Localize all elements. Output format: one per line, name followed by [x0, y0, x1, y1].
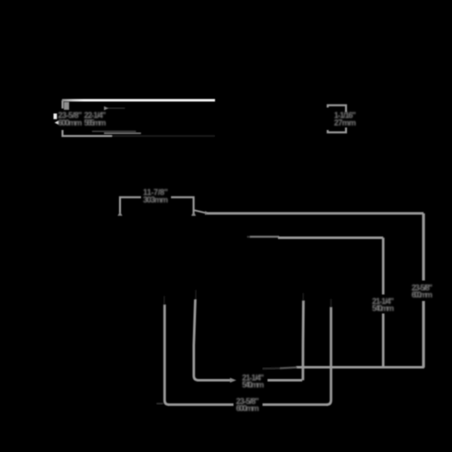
wire: extension line E3 — [302, 301, 305, 381]
wire: dark fade-in at left end of B1 — [263, 367, 282, 369]
wire: right small dimension bracket top — [328, 105, 346, 112]
node: right leg arrow flare — [191, 212, 196, 216]
node: arrow on B3 — [230, 378, 236, 383]
node: small arrow at top line start — [205, 211, 210, 215]
wire: diagonal from bracket to top line — [194, 210, 207, 213]
wire: top-left gray corner line — [62, 100, 64, 108]
wire: bottom dimension line B2 — [168, 403, 234, 406]
wire: bottom dimension line B3 right part — [268, 379, 303, 382]
wire: E1 dark stub above — [163, 296, 165, 305]
wire: lower leader line faint — [92, 130, 136, 132]
svg-text:540mm: 540mm — [242, 381, 264, 390]
svg-text:600mm: 600mm — [236, 404, 259, 413]
wire: right vertical R1 upper segment — [422, 213, 425, 280]
wire: dark stub left of B2 corner — [157, 403, 164, 405]
svg-text:600mm: 600mm — [58, 119, 82, 128]
wire: right vertical R1 lower segment — [422, 301, 425, 368]
wire: E3 dark stub above — [302, 293, 304, 301]
wire: second top horizontal line T2 — [247, 236, 251, 238]
svg-text:27mm: 27mm — [334, 119, 356, 128]
node: left leg arrow flare — [118, 212, 123, 216]
wire: lower-left gray bracket line — [63, 130, 113, 136]
svg-text:303mm: 303mm — [143, 195, 168, 204]
svg-text:565mm: 565mm — [84, 119, 106, 128]
wire: bottom horizontal line B1 — [296, 366, 424, 369]
wire: bottom dimension line B3 left part — [197, 379, 231, 382]
wire: extension line E2 (slightly leaning) — [194, 300, 199, 381]
node: gray block below line start — [64, 102, 69, 110]
wire: extension line E4 — [327, 307, 331, 405]
wire: E4 dark stub above — [330, 299, 332, 308]
wire: top white highlight line — [62, 99, 215, 102]
wire: long top horizontal line T1 — [207, 212, 424, 215]
svg-text:600mm: 600mm — [412, 291, 433, 300]
wire: right vertical R2 upper segment — [382, 238, 385, 295]
wire: center top dimension bracket — [120, 197, 141, 215]
wire: right vertical R2 lower segment — [382, 314, 385, 367]
wire: left extension line E1 — [165, 305, 169, 405]
node A: white tick marks left of label — [54, 114, 57, 120]
wire: small arrow leader right of label B — [104, 106, 109, 110]
wire: right small dimension bracket bottom — [328, 128, 346, 133]
svg-text:540mm: 540mm — [372, 304, 394, 313]
wire: E2 dark stub above — [195, 290, 197, 300]
